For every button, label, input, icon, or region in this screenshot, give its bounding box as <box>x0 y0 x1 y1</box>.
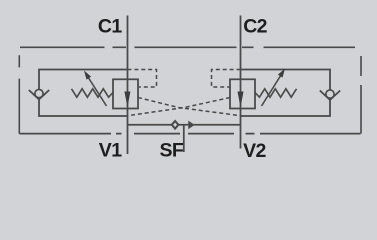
spring RV2 adjust arrow <box>262 74 283 107</box>
SF line <box>128 124 241 126</box>
enclosure dashed right edge <box>360 56 362 134</box>
svg-text:V1: V1 <box>99 140 122 162</box>
check valve CV1 seat <box>29 90 49 99</box>
svg-text:C1: C1 <box>98 15 122 37</box>
check valve CV2 seat <box>320 91 340 100</box>
SF flow arrow <box>189 122 194 129</box>
port line C1/V1 <box>127 16 129 155</box>
pilot loop RV1 dashed <box>128 70 157 88</box>
SF port stub <box>183 125 185 152</box>
svg-text:C2: C2 <box>243 15 267 37</box>
relief valve RV2 flow arrow <box>238 92 244 108</box>
enclosure dashed left edge <box>18 55 20 133</box>
relief valve RV1 box <box>113 79 138 108</box>
spring RV2 <box>255 89 297 97</box>
check valve CV2 circle <box>326 90 334 98</box>
svg-text:SF: SF <box>160 140 184 162</box>
boundary top long-dash line <box>20 46 355 48</box>
svg-text:V2: V2 <box>243 140 266 162</box>
check loop left <box>39 70 128 117</box>
boundary bottom long-dash line <box>19 133 360 135</box>
relief valve RV2 box <box>230 79 255 108</box>
SF orifice diamond <box>172 121 179 129</box>
check valve CV1 circle <box>35 89 43 97</box>
relief valve RV1 flow arrow <box>124 92 130 108</box>
pilot cross line B dashed <box>128 98 231 116</box>
spring RV1 <box>72 89 114 97</box>
port line C2/V2 <box>240 16 242 149</box>
spring RV1 adjust arrow <box>87 76 107 107</box>
check loop right <box>241 70 331 117</box>
pilot loop RV2 dashed <box>212 70 241 88</box>
pilot cross line A dashed <box>138 98 241 116</box>
